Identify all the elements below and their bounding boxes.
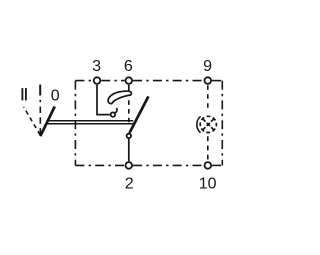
terminal 2 circle [126,162,133,169]
terminal 6 circle [126,77,133,84]
wire: stub below terminal 6 [128,85,130,93]
actuator dashed position II diagonal [24,107,40,135]
actuator lever position 0 (thick) [40,107,54,137]
lower contact circle [127,134,131,138]
svg-text:0: 0 [51,88,60,105]
switch body enclosure (dash-dot box) top edge [75,80,222,82]
enclosure bottom edge [75,164,222,166]
svg-text:10: 10 [199,175,217,192]
wire: terminal 3 down and right to fixed contact [97,85,110,115]
label I [39,85,41,96]
moving contact lever (thick) [130,96,149,132]
enclosure right edge [221,81,223,166]
terminal 10 circle [205,162,212,169]
movable flipper contact (paddle) [108,91,131,104]
terminal 9 circle [205,77,212,84]
svg-text:2: 2 [125,175,134,192]
svg-text:9: 9 [203,58,212,75]
dashed wire terminal 9 to lamp [207,85,209,111]
optional-lamp parenthesis [197,116,201,132]
svg-text:6: 6 [124,58,133,75]
label II [22,88,27,100]
terminal 3 circle [94,77,101,84]
contact hook [115,108,117,113]
wire: lower contact down to terminal 2 [128,139,130,162]
mechanical dashed link flipper to bar [128,100,130,122]
enclosure left edge [74,81,76,166]
svg-text:3: 3 [92,58,101,75]
dashed wire lamp to terminal 10 [207,136,209,161]
actuator dashed position I vertical [39,100,41,135]
mechanical double-line link bar [47,120,134,122]
illumination lamp (dashed circle with cross) [200,116,216,132]
fixed contact circle (from 3) [111,112,115,116]
